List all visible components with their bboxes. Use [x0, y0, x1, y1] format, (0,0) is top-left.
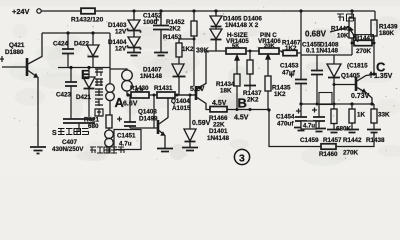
svg-text:C1453: C1453 — [280, 63, 299, 70]
wiper R1434 column — [234, 55, 240, 110]
transistor Q1405 — [334, 75, 374, 105]
ground under C1452 — [154, 53, 168, 56]
resistor R1437 column — [244, 50, 256, 91]
diode D1401 column — [184, 95, 196, 147]
ground under R1438 — [367, 130, 381, 133]
svg-text:12V: 12V — [115, 46, 127, 53]
transistor Q1404 — [175, 51, 210, 110]
svg-text:C424: C424 — [53, 41, 69, 48]
resistor R1466 — [210, 107, 227, 112]
wire E box right side — [109, 33, 111, 84]
svg-text:680: 680 — [88, 123, 99, 130]
resistor R1452 — [191, 11, 197, 39]
svg-text:D422: D422 — [74, 41, 90, 48]
wire leader to wiper — [330, 27, 349, 32]
svg-text:18K: 18K — [220, 88, 232, 95]
capacitor C1452 — [153, 11, 169, 52]
svg-text:R1440: R1440 — [331, 26, 350, 33]
svg-text:1.35V: 1.35V — [374, 73, 393, 80]
svg-text:(C1815: (C1815 — [347, 63, 368, 70]
resistor R1441 — [352, 40, 374, 45]
inductor linearity coil — [105, 128, 114, 153]
svg-text:+24V: +24V — [12, 7, 30, 16]
zener D1403 — [128, 11, 141, 33]
label 开路 (open) — [337, 14, 354, 21]
svg-text:D1880: D1880 — [5, 49, 24, 56]
svg-text:C407: C407 — [62, 139, 78, 146]
svg-text:1N4148 X 2: 1N4148 X 2 — [225, 22, 259, 29]
svg-text:1K2: 1K2 — [274, 91, 286, 98]
potentiometer VR1405 — [226, 48, 246, 54]
wire B rail 4.5V — [227, 109, 269, 111]
svg-text:5.2V: 5.2V — [190, 86, 205, 93]
svg-text:1N4148: 1N4148 — [316, 48, 339, 55]
svg-text:R1442: R1442 — [343, 137, 362, 144]
svg-text:100u: 100u — [143, 19, 158, 26]
diode D422 — [87, 33, 99, 68]
svg-text:Q1404: Q1404 — [171, 98, 190, 105]
diode D1408 column — [327, 55, 341, 104]
wire top +24V rail — [42, 11, 376, 20]
resistor R1467 — [283, 50, 297, 55]
background paper — [0, 0, 400, 174]
svg-text:C1451: C1451 — [117, 133, 136, 140]
svg-text:47uf: 47uf — [282, 70, 296, 77]
svg-text:5K: 5K — [232, 44, 240, 50]
value label 4.7u boxed — [301, 121, 316, 129]
diode D1405 — [210, 11, 222, 27]
svg-text:270K: 270K — [343, 150, 359, 157]
svg-text:A1015: A1015 — [172, 105, 191, 112]
svg-text:270K: 270K — [356, 48, 372, 55]
wire left edge stub — [0, 56, 4, 62]
svg-text:D1401: D1401 — [209, 128, 228, 135]
svg-text:0.1: 0.1 — [306, 48, 315, 55]
paper mottle — [9, 13, 400, 166]
wire R1452 to R1453 — [179, 39, 194, 43]
potentiometer VR1406 — [259, 48, 279, 54]
svg-text:2K2: 2K2 — [247, 97, 259, 104]
diode D1407 — [172, 64, 186, 95]
resistor R1438 — [371, 104, 377, 129]
svg-text:R1441: R1441 — [355, 35, 374, 42]
ground under Q421 — [30, 147, 46, 154]
resistor R1460 — [321, 144, 336, 149]
symbol circled 3 — [234, 149, 249, 164]
ground under R1457 — [327, 130, 341, 133]
inductor second winding — [122, 70, 133, 95]
capacitor C1454 — [295, 104, 307, 127]
wire 39K branch — [193, 39, 195, 86]
wire E rail — [58, 67, 110, 69]
capacitor C424 — [62, 33, 74, 68]
svg-text:12V: 12V — [115, 29, 127, 36]
svg-text:0.73V: 0.73V — [351, 93, 370, 100]
svg-text:33K: 33K — [378, 112, 390, 119]
svg-text:R1432/120: R1432/120 — [71, 17, 104, 24]
node junction R1452 bottom — [193, 38, 196, 41]
resistor R1431 — [157, 92, 175, 98]
svg-text:1K2: 1K2 — [182, 46, 194, 53]
svg-text:S: S — [52, 130, 57, 137]
resistor R421 — [106, 115, 112, 128]
junction dots on top rail — [132, 9, 353, 12]
svg-text:1K: 1K — [357, 112, 366, 119]
svg-text:R1460: R1460 — [319, 151, 338, 158]
svg-text:3.9: 3.9 — [135, 88, 144, 94]
svg-text:4.5V: 4.5V — [212, 100, 227, 107]
svg-text:B: B — [238, 96, 247, 111]
capacitor C1455 column — [311, 55, 323, 104]
svg-text:4.5V: 4.5V — [234, 115, 249, 122]
C1453 column from rail — [289, 11, 307, 104]
svg-text:470uf: 470uf — [277, 121, 294, 128]
svg-text:R1453: R1453 — [163, 34, 182, 41]
wiper R1435 column — [265, 54, 271, 111]
scan speckle noise — [10, 7, 397, 161]
svg-text:3: 3 — [239, 153, 245, 165]
ground under C1459 — [312, 129, 326, 132]
svg-text:Q421: Q421 — [9, 42, 25, 49]
inductor deflection yoke coil — [106, 84, 115, 115]
diode D421 — [83, 68, 95, 120]
resistor R1432 — [81, 8, 95, 14]
svg-text:2K2: 2K2 — [169, 26, 181, 33]
capacitor C407 plates — [63, 119, 95, 131]
ground under R1442 — [345, 130, 359, 133]
resistor R1453 — [176, 43, 182, 64]
svg-text:R1431: R1431 — [154, 85, 173, 92]
wire pot row — [206, 51, 352, 55]
label 行校正电感 — [90, 147, 124, 153]
svg-text:C1459: C1459 — [300, 137, 319, 144]
svg-text:10K: 10K — [337, 33, 349, 40]
svg-text:Q1405: Q1405 — [341, 73, 360, 80]
capacitor C1451 — [117, 95, 136, 128]
svg-text:430N/250V: 430N/250V — [52, 146, 84, 153]
wire E box top rail — [42, 32, 110, 34]
svg-text:C423: C423 — [56, 92, 72, 99]
svg-text:1N4148: 1N4148 — [140, 73, 163, 80]
svg-text:0.68V: 0.68V — [305, 30, 327, 39]
label R1441 270K — [354, 35, 374, 41]
wire stub to second coil — [110, 69, 127, 70]
transistor Q1403 — [130, 98, 168, 148]
ground under C1454 — [294, 128, 308, 131]
svg-text:0.59V: 0.59V — [192, 120, 211, 127]
potentiometer R1440 — [349, 11, 359, 55]
wire emitter rail — [301, 103, 374, 105]
resistor R1457 — [331, 104, 337, 129]
svg-text:R1457: R1457 — [323, 137, 342, 144]
ground under D1404 — [127, 53, 141, 56]
svg-text:4.7u: 4.7u — [119, 141, 132, 148]
svg-text:4.7u: 4.7u — [303, 124, 315, 130]
capacitor C423 — [65, 68, 77, 120]
svg-text:Q1403: Q1403 — [138, 109, 157, 116]
svg-text:C1454: C1454 — [276, 114, 295, 121]
svg-text:1K2: 1K2 — [285, 45, 297, 52]
node +24V terminal — [37, 9, 41, 13]
ground under Q1403 emitter — [157, 149, 173, 152]
svg-text:R1438: R1438 — [366, 137, 385, 144]
resistor R1442 — [349, 104, 355, 129]
wire B node drop and bottom run — [269, 110, 374, 147]
svg-text:1N4148: 1N4148 — [207, 135, 230, 142]
ground under D1401 — [182, 148, 198, 151]
resistor R1439 — [371, 20, 377, 74]
box outline artifact — [319, 93, 332, 105]
diode D1406 — [210, 27, 222, 52]
svg-text:D421: D421 — [76, 94, 92, 101]
svg-text:20K: 20K — [264, 44, 275, 50]
wire base row — [128, 94, 196, 96]
wire R1430/R1431 junction drop — [153, 95, 155, 128]
label 行偏转线圈 vertical (deflection coil) — [95, 69, 103, 116]
label C1451 4.7u boxed — [114, 130, 141, 150]
svg-text:180K: 180K — [379, 30, 395, 37]
capacitor C1459 — [312, 104, 325, 128]
transistor Q421 — [2, 33, 42, 146]
resistor R1430 — [131, 92, 149, 98]
zener D1404 — [128, 31, 141, 53]
svg-text:D1499: D1499 — [139, 116, 158, 123]
